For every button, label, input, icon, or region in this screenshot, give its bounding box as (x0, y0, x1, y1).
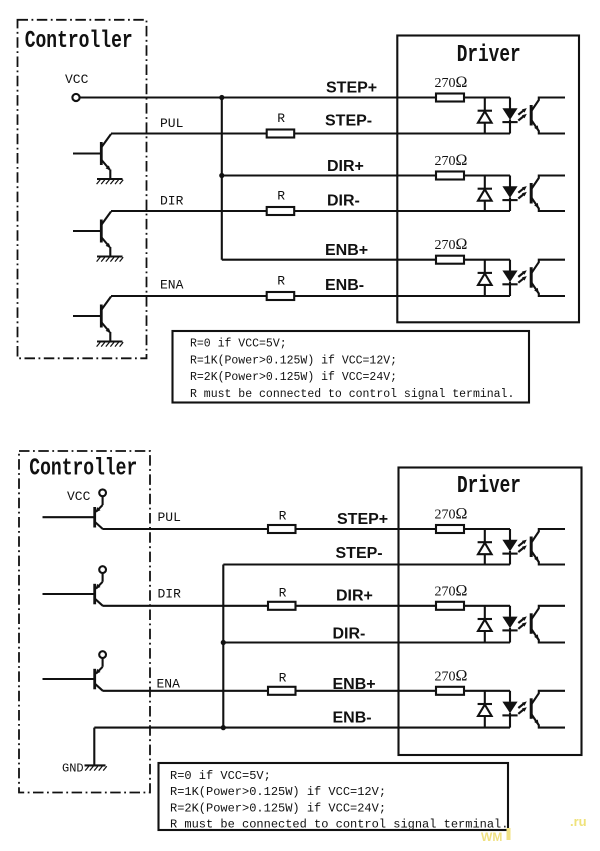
svg-text:VCC: VCC (65, 72, 89, 87)
watermark marks (481, 828, 511, 844)
svg-text:DIR+: DIR+ (336, 588, 373, 605)
LED (ENB top) (502, 260, 517, 296)
wire ENB+ (222, 259, 436, 261)
svg-text:R: R (277, 274, 285, 289)
ground (97, 257, 124, 262)
svg-text:DIR-: DIR- (327, 193, 360, 210)
resistor 270ohm (DIR top) (436, 172, 464, 180)
wire DIR+ (222, 174, 436, 176)
wire STEP- (111, 132, 267, 134)
svg-text:STEP-: STEP- (325, 113, 372, 130)
svg-text:PUL: PUL (158, 510, 181, 525)
transistor Q3 (ENA) (73, 297, 111, 342)
ground GND (85, 765, 107, 770)
VCC terminal circle (Q5 (DIR)) (99, 566, 106, 573)
resistor 270ohm (ENB bottom) (436, 687, 464, 695)
svg-text:VCC: VCC (67, 489, 91, 504)
protection diode (DIR top) (478, 176, 492, 212)
transistor Q5 (DIR) (43, 573, 103, 606)
protection diode (STEP top) (478, 98, 492, 134)
resistor 270ohm (STEP bottom) (436, 525, 464, 533)
svg-text:Driver: Driver (457, 42, 521, 69)
svg-text:270Ω: 270Ω (435, 74, 468, 91)
VCC terminal circle (Q4 (PUL)) (99, 489, 106, 496)
transistor Q2 (DIR) (73, 212, 111, 257)
protection diode (DIR bottom) (478, 606, 492, 643)
svg-text:GND: GND (62, 762, 84, 776)
wire DIR+ (bottom) (103, 605, 268, 607)
wire 270ohm to LED (464, 259, 510, 261)
svg-text:R: R (279, 585, 287, 600)
svg-text:270Ω: 270Ω (435, 152, 468, 169)
svg-text:R must be connected to control: R must be connected to control signal te… (170, 818, 508, 832)
svg-text:PUL: PUL (160, 116, 183, 131)
svg-text:ENB-: ENB- (325, 277, 364, 294)
svg-text:R=2K(Power>0.125W) if VCC=24V;: R=2K(Power>0.125W) if VCC=24V; (170, 801, 386, 815)
svg-text:STEP+: STEP+ (337, 511, 388, 528)
phototransistor (STEP bottom) (531, 529, 565, 565)
svg-text:ENA: ENA (157, 677, 181, 692)
light emission arrows (DIR bottom) (518, 616, 527, 628)
svg-text:R=0 if VCC=5V;: R=0 if VCC=5V; (170, 769, 271, 783)
wire DIR- (111, 210, 267, 212)
wire STEP+ (bottom) (103, 528, 268, 530)
phototransistor (ENB top) (531, 260, 565, 296)
VCC terminal (72, 94, 79, 101)
svg-text:Controller: Controller (25, 28, 133, 55)
light emission arrows (STEP bottom) (518, 540, 527, 552)
note text (top) (190, 338, 514, 401)
wire ENB- (111, 295, 267, 297)
wire DIR- (bottom) (223, 641, 510, 643)
GND bus wire (bottom) (222, 565, 224, 728)
controller box (top diagram) (18, 20, 147, 359)
svg-text:R=0 if VCC=5V;: R=0 if VCC=5V; (190, 338, 287, 351)
resistor 270ohm (ENB top) (436, 256, 464, 264)
VCC terminal circle (Q6 (ENA)) (99, 651, 106, 658)
svg-text:270Ω: 270Ω (435, 506, 468, 523)
svg-text:270Ω: 270Ω (435, 582, 468, 599)
svg-text:R=1K(Power>0.125W) if VCC=12V;: R=1K(Power>0.125W) if VCC=12V; (190, 354, 397, 367)
LED (STEP top) (502, 98, 517, 134)
svg-text:STEP-: STEP- (336, 545, 383, 562)
light emission arrows (STEP top) (518, 108, 527, 120)
resistor 270ohm (STEP top) (436, 94, 464, 102)
svg-text:R=1K(Power>0.125W) if VCC=12V;: R=1K(Power>0.125W) if VCC=12V; (170, 785, 386, 799)
svg-text:ENB+: ENB+ (325, 242, 368, 259)
svg-text:R: R (277, 189, 285, 204)
protection diode (STEP bottom) (478, 529, 492, 565)
wire VCC / STEP+ (80, 96, 436, 98)
protection diode (ENB top) (478, 260, 492, 296)
junction dot (bus/DIR-) (221, 640, 226, 645)
svg-text:R must be connected to control: R must be connected to control signal te… (190, 388, 514, 401)
junction dot (bus/STEP+) (219, 95, 224, 100)
ground (97, 179, 124, 184)
transistor Q6 (ENA) (43, 658, 103, 691)
LED (DIR top) (502, 176, 517, 212)
LED (ENB bottom) (502, 691, 517, 728)
resistor R (ENB+ bottom) (268, 687, 296, 695)
phototransistor (ENB bottom) (531, 691, 565, 728)
controller box (bottom diagram) (19, 451, 150, 793)
svg-text:ENB+: ENB+ (333, 676, 376, 693)
svg-text:270Ω: 270Ω (435, 236, 468, 253)
wire ENB- (bottom) (94, 727, 510, 729)
driver box (top diagram) (397, 36, 579, 323)
wire 270ohm to LED (464, 528, 510, 530)
note box (top) (173, 331, 530, 403)
phototransistor (STEP top) (531, 98, 565, 134)
svg-text:R: R (277, 111, 285, 126)
svg-text:DIR-: DIR- (333, 626, 366, 643)
light emission arrows (ENB top) (518, 270, 527, 282)
driver box (bottom diagram) (399, 468, 582, 756)
protection diode (ENB bottom) (478, 691, 492, 728)
svg-text:R: R (279, 670, 287, 685)
svg-text:R: R (279, 509, 287, 524)
wire ENB+ (bottom) (103, 690, 268, 692)
note box (bottom) (159, 763, 509, 830)
svg-text:.ru: .ru (570, 814, 587, 829)
junction dot (bus/ENB-) (221, 725, 226, 730)
transistor Q4 (PUL) (43, 496, 103, 529)
VCC bus wire (221, 98, 223, 260)
light emission arrows (DIR top) (518, 186, 527, 198)
wire 270ohm to LED (464, 96, 510, 98)
GND drop wire (93, 728, 95, 766)
light emission arrows (ENB bottom) (518, 701, 527, 713)
svg-text:ENB-: ENB- (333, 710, 372, 727)
wire STEP- (bottom) (223, 563, 510, 565)
svg-text:Driver: Driver (457, 473, 521, 500)
resistor R (DIR-) (267, 207, 295, 215)
svg-text:STEP+: STEP+ (326, 80, 377, 97)
LED (STEP bottom) (502, 529, 517, 565)
phototransistor (DIR bottom) (531, 606, 565, 643)
svg-text:DIR+: DIR+ (327, 158, 364, 175)
svg-text:R=2K(Power>0.125W) if VCC=24V;: R=2K(Power>0.125W) if VCC=24V; (190, 371, 397, 384)
ground (97, 342, 124, 347)
svg-text:Controller: Controller (29, 455, 137, 482)
svg-text:WM: WM (481, 830, 502, 844)
resistor 270ohm (DIR bottom) (436, 602, 464, 610)
wire 270ohm to LED (464, 690, 510, 692)
note text (bottom) (170, 769, 508, 832)
transistor Q1 (PUL) (73, 134, 111, 179)
svg-text:ENA: ENA (160, 278, 184, 293)
resistor R (STEP+ bottom) (268, 525, 296, 533)
resistor R (ENB-) (267, 292, 295, 300)
junction dot (bus/DIR+) (219, 173, 224, 178)
LED (DIR bottom) (502, 606, 517, 643)
resistor R (DIR+ bottom) (268, 602, 296, 610)
wire 270ohm to LED (464, 605, 510, 607)
svg-text:DIR: DIR (160, 194, 184, 209)
svg-text:270Ω: 270Ω (435, 667, 468, 684)
phototransistor (DIR top) (531, 176, 565, 212)
svg-text:DIR: DIR (158, 587, 182, 602)
resistor R (STEP-) (267, 130, 295, 138)
wire 270ohm to LED (464, 174, 510, 176)
